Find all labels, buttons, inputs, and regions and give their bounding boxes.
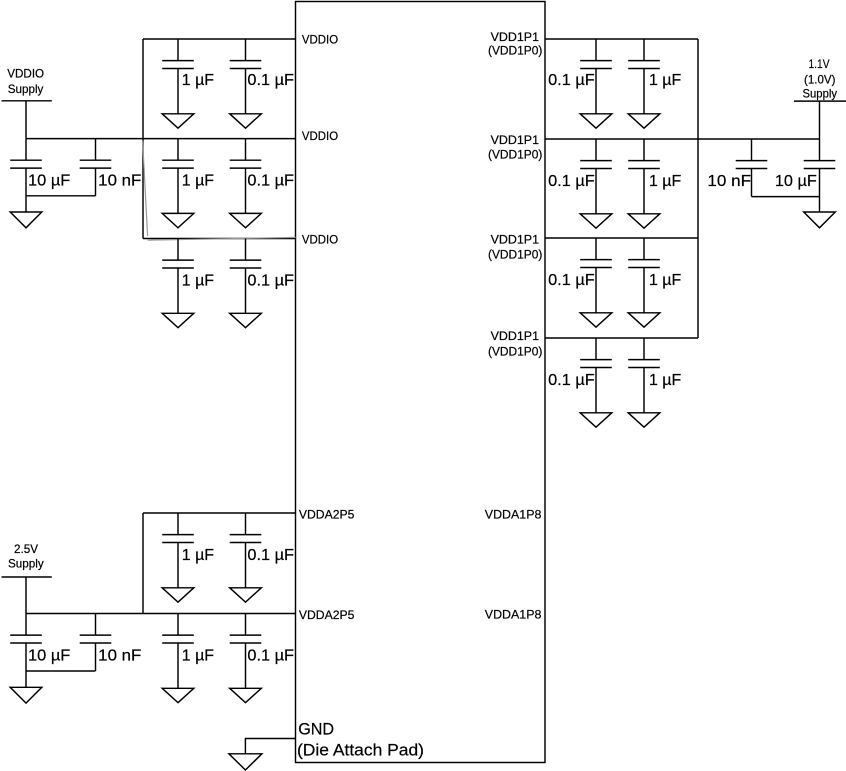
- svg-text:10 µF: 10 µF: [28, 648, 71, 665]
- wire VDDA2P5 pin 1 net: [143, 512, 296, 514]
- svg-text:0.1 µF: 0.1 µF: [548, 372, 595, 389]
- ground: [580, 313, 612, 327]
- capacitor 1 uF (VDD1P1 row 2): [628, 139, 681, 214]
- capacitor 1 uF (VDDIO row 2): [162, 139, 214, 214]
- capacitor 1 uF (VDDIO row 3): [162, 239, 214, 314]
- svg-text:1 µF: 1 µF: [182, 273, 214, 290]
- svg-text:0.1 µF: 0.1 µF: [548, 272, 595, 289]
- wire VDDA2P5 pin 2 net (rail from 2.5V supply): [26, 613, 296, 615]
- svg-text:1 µF: 1 µF: [649, 272, 681, 289]
- wire VDD1P1 pin 4 net: [545, 337, 698, 339]
- svg-text:VDDIO: VDDIO: [7, 67, 44, 81]
- wire VDDIO supply drop to rail: [25, 101, 27, 139]
- pin label VDD1P1 (VDD1P0) (pin 1): [488, 30, 542, 57]
- wire to 1.1V supply ground: [819, 197, 821, 212]
- wire VDD1P1 pin 1 net: [545, 38, 698, 40]
- power rail bar VDDIO supply: [2, 100, 52, 102]
- ground: [229, 754, 262, 770]
- wire joining 1.1V supply capacitor bottoms: [752, 196, 820, 198]
- svg-text:1 µF: 1 µF: [182, 72, 214, 89]
- ground: [580, 413, 612, 427]
- capacitor 0.1 uF (VDDIO row 3): [230, 239, 295, 314]
- ground: [628, 313, 660, 327]
- svg-text:1.1V: 1.1V: [809, 57, 830, 71]
- svg-text:(VDD1P0): (VDD1P0): [488, 44, 542, 58]
- capacitor 1 uF (VDD1P1 row 1): [628, 39, 681, 114]
- svg-text:VDD1P1: VDD1P1: [491, 30, 540, 44]
- svg-text:VDDA1P8: VDDA1P8: [485, 508, 542, 522]
- ground: [580, 214, 612, 228]
- svg-text:0.1 µF: 0.1 µF: [247, 547, 294, 564]
- power rail bar 2.5V supply: [2, 576, 52, 578]
- svg-text:1 µF: 1 µF: [182, 173, 214, 190]
- pin label VDD1P1 (VDD1P0) (pin 2): [488, 133, 542, 162]
- capacitor 0.1 uF (VDD1P1 row 4): [548, 338, 612, 413]
- ground: [162, 588, 194, 602]
- svg-text:VDDIO: VDDIO: [302, 32, 338, 46]
- capacitor 1 uF (VDD1P1 row 3): [628, 238, 681, 313]
- svg-text:10 µF: 10 µF: [775, 173, 817, 190]
- svg-text:Supply: Supply: [8, 557, 44, 571]
- wire to 2.5V supply ground: [25, 671, 27, 687]
- pin label VDD1P1 (VDD1P0) (pin 3): [488, 232, 542, 261]
- svg-text:1 µF: 1 µF: [182, 547, 214, 564]
- wire joining 2.5V supply capacitor bottoms: [26, 670, 96, 672]
- capacitor 0.1 uF (VDD1P1 row 1): [548, 39, 612, 114]
- svg-text:10 nF: 10 nF: [98, 648, 142, 665]
- wire VDDIO pin 2 net (rail from VDDIO supply): [26, 138, 296, 140]
- svg-text:10 µF: 10 µF: [28, 173, 71, 190]
- ground: [628, 214, 660, 228]
- svg-text:VDDA2P5: VDDA2P5: [299, 507, 355, 521]
- capacitor 1 uF (VDDIO row 1): [162, 39, 214, 114]
- capacitor 1 uF (VDD1P1 row 4): [628, 338, 681, 413]
- svg-text:0.1 µF: 0.1 µF: [247, 648, 294, 665]
- svg-text:1 µF: 1 µF: [649, 372, 681, 389]
- ground: [230, 213, 262, 227]
- ground: [10, 212, 42, 228]
- svg-text:0.1 µF: 0.1 µF: [548, 72, 595, 89]
- ground: [162, 114, 194, 128]
- capacitor 1 uF (VDDA2P5 row 1): [162, 513, 214, 588]
- capacitor 10 uF (VDDIO supply): [10, 139, 70, 196]
- wire VDD1P1 pin 2 net (rail from 1.1V supply): [545, 138, 820, 140]
- wire VDD1P1 pin 3 net: [545, 237, 698, 239]
- svg-text:VDD1P1: VDD1P1: [491, 232, 540, 246]
- svg-text:Supply: Supply: [8, 82, 44, 96]
- ground: [230, 114, 262, 128]
- svg-text:(VDD1P0): (VDD1P0): [488, 147, 542, 161]
- capacitor 1 uF (VDDA2P5 row 2): [162, 614, 214, 689]
- VDDIO supply label: [7, 67, 44, 96]
- svg-text:0.1 µF: 0.1 µF: [247, 173, 294, 190]
- wire grey artifact left: [143, 141, 148, 237]
- capacitor 0.1 uF (VDDIO row 2): [230, 139, 295, 214]
- capacitor 0.1 uF (VDDA2P5 row 2): [230, 614, 295, 689]
- 2.5V supply label: [8, 542, 44, 570]
- svg-text:VDDA1P8: VDDA1P8: [485, 608, 542, 622]
- ground: [628, 413, 660, 427]
- wire VDDIO pin 3 net (bottom rail): [143, 238, 296, 240]
- capacitor 10 uF (1.1V supply): [775, 139, 835, 197]
- svg-text:VDDA2P5: VDDA2P5: [299, 608, 355, 622]
- capacitor 0.1 uF (VDD1P1 row 2): [548, 139, 612, 214]
- svg-text:1 µF: 1 µF: [182, 648, 214, 665]
- ground: [162, 688, 194, 702]
- ground: [10, 687, 42, 703]
- wire 2.5V supply drop to rail: [25, 577, 27, 614]
- ground: [230, 688, 262, 702]
- capacitor 10 nF (1.1V supply): [707, 139, 767, 197]
- svg-text:0.1 µF: 0.1 µF: [247, 273, 294, 290]
- svg-text:(VDD1P0): (VDD1P0): [488, 344, 542, 358]
- capacitor 10 nF (2.5V supply): [80, 614, 142, 672]
- wire joining supply capacitor bottoms: [26, 195, 96, 197]
- svg-text:1 µF: 1 µF: [649, 72, 681, 89]
- wire vertical bus joining VDDIO rails: [142, 39, 144, 239]
- capacitor 10 nF (VDDIO supply): [80, 139, 142, 196]
- capacitor 0.1 uF (VDDIO row 1): [230, 39, 295, 114]
- svg-text:VDDIO: VDDIO: [302, 129, 338, 143]
- svg-text:0.1 µF: 0.1 µF: [548, 173, 595, 190]
- capacitor 0.1 uF (VDDA2P5 row 1): [230, 513, 295, 588]
- wire 1.1V supply drop to rail: [819, 101, 821, 139]
- power rail bar 1.1V supply: [794, 100, 846, 102]
- ground: [628, 114, 660, 128]
- wire grey artifact bottom: [148, 237, 296, 240]
- svg-text:0.1 µF: 0.1 µF: [247, 72, 294, 89]
- ground: [230, 588, 262, 602]
- pin label VDD1P1 (VDD1P0) (pin 4): [488, 329, 542, 358]
- ground: [162, 313, 194, 327]
- svg-text:GND: GND: [298, 721, 334, 739]
- capacitor 10 uF (2.5V supply): [10, 614, 70, 672]
- pin label GND (Die Attach Pad): [297, 721, 424, 760]
- svg-text:(1.0V): (1.0V): [804, 73, 836, 87]
- wire GND (Die Attach Pad) net: [245, 739, 295, 754]
- capacitor 0.1 uF (VDD1P1 row 3): [548, 238, 612, 313]
- svg-text:VDDIO: VDDIO: [302, 233, 338, 247]
- IC U1 body (device outline): [296, 2, 546, 763]
- wire to supply ground: [25, 196, 27, 212]
- wire VDDIO pin 1 net (top rail): [143, 38, 296, 40]
- 1.1V supply label: [803, 57, 838, 101]
- wire vertical bus joining VDDA2P5 rails: [142, 513, 144, 614]
- svg-text:10 nF: 10 nF: [98, 173, 142, 190]
- svg-text:Supply: Supply: [803, 87, 838, 101]
- svg-text:(VDD1P0): (VDD1P0): [488, 247, 542, 261]
- svg-text:(Die Attach Pad): (Die Attach Pad): [297, 741, 424, 759]
- ground: [804, 212, 836, 228]
- svg-text:10 nF: 10 nF: [707, 173, 751, 190]
- svg-text:VDD1P1: VDD1P1: [491, 329, 540, 343]
- ground: [580, 114, 612, 128]
- svg-text:2.5V: 2.5V: [14, 542, 38, 556]
- ground: [230, 313, 262, 327]
- wire vertical bus joining VDD1P1 rails: [697, 39, 699, 338]
- svg-text:VDD1P1: VDD1P1: [491, 133, 540, 147]
- svg-text:1 µF: 1 µF: [649, 173, 681, 190]
- ground: [162, 213, 194, 227]
